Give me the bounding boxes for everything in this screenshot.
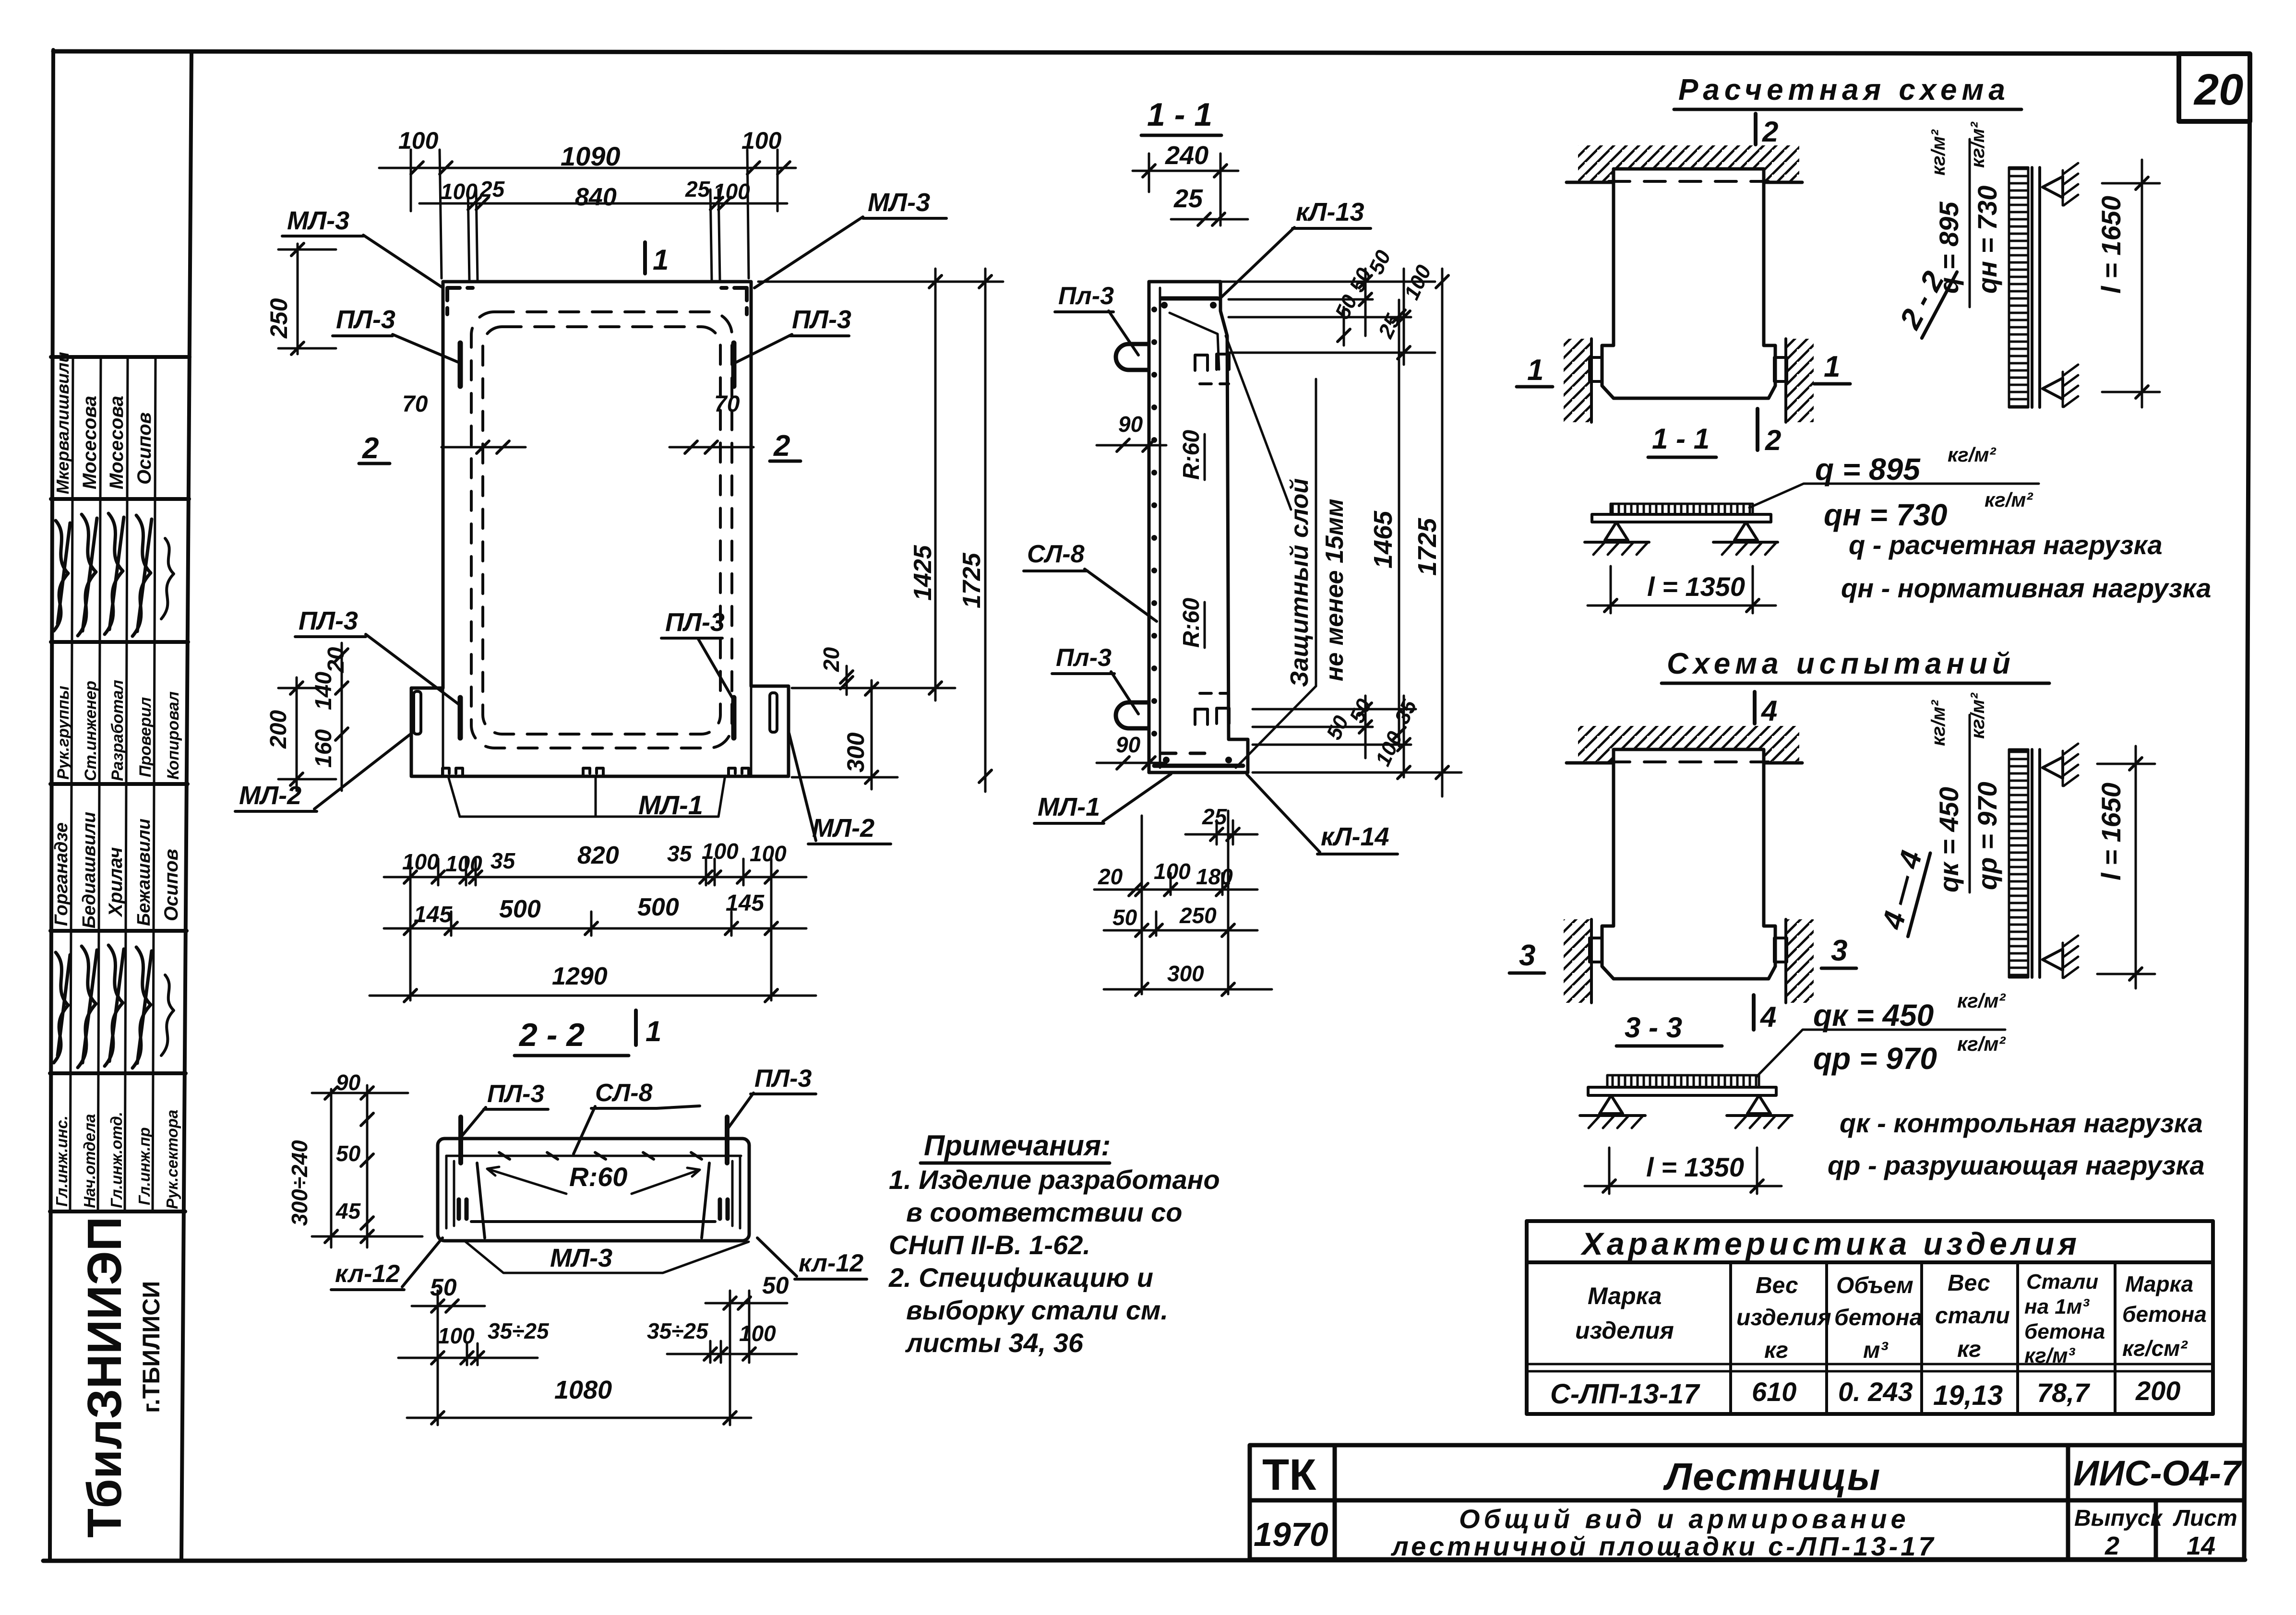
svg-text:300: 300 [1167,961,1204,986]
svg-text:Лестницы: Лестницы [1663,1455,1881,1498]
svg-text:Осипов: Осипов [134,412,155,485]
svg-text:Характеристика изделия: Характеристика изделия [1580,1226,2081,1261]
ПЛ-3 bar left 2-2 [458,1117,463,1163]
svg-text:кл-12: кл-12 [335,1260,400,1288]
lifting hook upper ПЛ-3 [1116,344,1148,370]
label 2-2 rotated [1892,256,1957,338]
svg-text:240: 240 [1165,141,1208,170]
svg-text:qк - контрольная нагрузка: qк - контрольная нагрузка [1840,1108,2203,1138]
svg-text:кг/м²: кг/м² [1928,700,1949,746]
svg-text:qр = 970: qр = 970 [1813,1041,1937,1076]
svg-text:Ст.инженер: Ст.инженер [82,681,100,781]
beam support triangle left test [1600,1095,1623,1114]
svg-text:1 - 1: 1 - 1 [1147,96,1212,133]
svg-text:кл-12: кл-12 [799,1249,863,1277]
svg-text:3: 3 [1519,939,1535,972]
svg-text:2 - 2: 2 - 2 [518,1017,585,1053]
char table col line 5 [2114,1262,2117,1414]
svg-text:140: 140 [311,672,336,710]
svg-text:кг/м²: кг/м² [1957,1033,2006,1055]
stamp signature s1c4 [132,515,152,636]
svg-text:изделия: изделия [1736,1305,1831,1330]
svg-text:кг/м²: кг/м² [1957,989,2006,1012]
svg-text:l = 1650: l = 1650 [2096,783,2126,880]
svg-text:Марка: Марка [1588,1282,1662,1309]
svg-text:листы 34, 36: листы 34, 36 [905,1328,1084,1358]
support bottom 2-2 [2043,378,2063,399]
stamp row line sigs2 top [50,929,187,933]
svg-text:СНиП II-В. 1-62.: СНиП II-В. 1-62. [889,1230,1090,1260]
svg-text:Примечания:: Примечания: [924,1129,1111,1162]
corner angle dash top-right [721,288,747,314]
stamp signature s1c1 [54,521,70,631]
svg-text:200: 200 [2135,1376,2180,1406]
char table double line b [1527,1370,2213,1373]
svg-text:кЛ-14: кЛ-14 [1321,822,1389,851]
support wall right [1784,339,1787,422]
svg-text:100: 100 [445,851,482,876]
ceiling hatch [1578,145,1614,181]
svg-text:100: 100 [1371,728,1408,770]
web bottom line [471,1220,715,1223]
svg-text:840: 840 [575,183,617,211]
svg-text:1725: 1725 [958,552,986,608]
dim 70 right [670,446,753,449]
svg-text:в соответствии со: в соответствии со [906,1197,1182,1227]
svg-text:R:60: R:60 [569,1162,627,1192]
ПЛ-3 bar right 2-2 [725,1117,729,1163]
МЛ-3 leader trapezoid 2-2 [466,1242,749,1273]
svg-text:МЛ-2: МЛ-2 [812,814,874,843]
МЛ-1 leader trapezoid [449,778,725,817]
svg-text:qн = 730: qн = 730 [1824,498,1947,532]
svg-text:кг/м²: кг/м² [1967,692,1988,739]
svg-text:выборку стали см.: выборку стали см. [906,1295,1168,1325]
stamp signature s2c1 [54,952,70,1063]
svg-text:90: 90 [336,1070,361,1095]
stamp signature s2c4 [132,947,152,1068]
support bottom 4-4 [2043,949,2063,970]
svg-text:не менее 15мм: не менее 15мм [1321,499,1349,681]
dim 1725 vertical section [1253,269,1461,796]
corner angle dash top-left [447,288,473,314]
svg-text:кг: кг [1957,1337,1981,1362]
svg-text:35÷25: 35÷25 [647,1318,709,1343]
svg-text:СЛ-8: СЛ-8 [595,1079,653,1107]
svg-text:2: 2 [1765,424,1781,456]
svg-text:qр = 970: qр = 970 [1972,782,2002,890]
svg-text:160: 160 [311,729,336,768]
svg-text:Бедиашвили: Бедиашвили [79,812,99,928]
svg-text:q = 895: q = 895 [1815,452,1921,487]
svg-text:19,13: 19,13 [1933,1380,2003,1411]
svg-text:35÷25: 35÷25 [488,1318,550,1343]
svg-text:1090: 1090 [561,141,621,171]
svg-text:4: 4 [1760,1001,1776,1033]
char table col line 4 [2016,1262,2019,1414]
stamp row line titles1 top [51,640,188,644]
svg-text:qн = 730: qн = 730 [1972,186,2002,294]
dim 1425 right vertical [934,269,937,701]
svg-text:бетона: бетона [2024,1320,2105,1343]
svg-text:145: 145 [726,891,765,916]
ceiling line test [1567,761,1802,765]
svg-text:СЛ-8: СЛ-8 [1027,540,1085,568]
svg-text:R:60: R:60 [1179,598,1204,648]
dim row2 840 line [419,202,787,205]
svg-text:500: 500 [637,893,679,921]
svg-text:стали: стали [1935,1303,2010,1329]
beam support triangle right [1734,522,1758,540]
svg-text:МЛ-3: МЛ-3 [868,188,930,217]
svg-text:1970: 1970 [1254,1516,1328,1553]
ceiling hatch test [1578,726,1614,762]
svg-text:ПЛ-3: ПЛ-3 [336,305,395,334]
svg-text:145: 145 [414,902,453,927]
svg-text:20: 20 [819,647,844,672]
vertical load comb 4-4 [2009,749,2028,977]
vertical beam 2-2 [2031,167,2033,407]
section 1-1 body outline [1149,282,1248,772]
svg-text:250: 250 [265,298,292,339]
svg-text:ПЛ-3: ПЛ-3 [299,606,358,635]
svg-text:Расчетная схема: Расчетная схема [1678,73,2010,107]
svg-text:лестничной площадки с-ЛП-13-17: лестничной площадки с-ЛП-13-17 [1390,1531,1937,1561]
rebar U marks upper [1195,354,1229,370]
МЛ-1 anchor notch right [729,768,749,776]
section taper diagonal [1170,313,1219,369]
svg-text:25: 25 [1202,804,1228,829]
beam bar test [1588,1087,1776,1095]
stamp column line c2 [98,357,101,1211]
svg-text:Осипов: Осипов [161,849,182,921]
svg-text:Вес: Вес [1948,1271,1990,1296]
title block right divider [2066,1445,2070,1559]
svg-text:200: 200 [266,710,291,749]
svg-text:35: 35 [490,848,516,873]
svg-text:Мосесова: Мосесова [106,396,127,489]
svg-text:1425: 1425 [909,545,937,601]
svg-text:q = 895: q = 895 [1934,202,1964,294]
section mark 1 top [643,242,647,273]
stamp row line names1 top [51,355,190,359]
svg-text:Мкервалишвили: Мкервалишвили [53,352,72,495]
svg-text:1080: 1080 [554,1376,612,1404]
support wall left [1590,339,1593,422]
svg-text:500: 500 [499,895,541,923]
svg-text:qк = 450: qк = 450 [1813,998,1934,1033]
svg-text:Марка: Марка [2125,1271,2193,1296]
dim 20-140-160 left vertical [341,643,343,791]
title block Выпуск-Лист divider [2154,1500,2158,1559]
svg-text:Гл.инж.отд.: Гл.инж.отд. [108,1112,125,1208]
svg-text:Горганадзе: Горганадзе [51,822,72,926]
svg-text:qн - нормативная нагрузка: qн - нормативная нагрузка [1841,573,2211,603]
МЛ-1 trapezoid divider [595,777,597,817]
svg-text:1725: 1725 [1413,518,1442,576]
rib rebar dots left [459,1199,466,1219]
slab bearing tab right test [1774,938,1787,962]
plan left ear tab МЛ-2 [414,691,421,734]
slab hidden top dashed test [1609,760,1769,763]
svg-text:бетона: бетона [2122,1302,2207,1327]
dim rowB 500 line [384,927,806,930]
rebar dots along section [1151,307,1157,736]
svg-text:90: 90 [1118,412,1143,437]
stamp column line c3 [125,357,128,1211]
svg-text:20: 20 [1098,864,1123,889]
dim 20 right vertical [846,666,848,695]
ground line left [1585,541,1649,544]
ПЛ-3 bar bottom-right [731,698,737,738]
dim 1465 vertical [1393,300,1405,746]
load leader line test [1757,1030,2005,1077]
svg-text:qр - разрушающая нагрузка: qр - разрушающая нагрузка [1828,1150,2205,1180]
support top 2-2 [2043,177,2063,198]
svg-text:50: 50 [762,1272,789,1299]
svg-text:100: 100 [438,1323,475,1348]
svg-text:250: 250 [1179,903,1217,928]
svg-text:35: 35 [667,841,693,866]
svg-text:70: 70 [714,392,740,417]
left stamp column divider [181,52,191,1560]
rib inner line left [446,1156,454,1228]
svg-text:2: 2 [1762,116,1778,148]
stamp signature s2c2 [78,946,97,1068]
dim rowA 820 line [384,876,806,879]
svg-text:Рук.группы: Рук.группы [54,686,72,780]
svg-text:Рук.сектора: Рук.сектора [163,1110,181,1209]
svg-text:100: 100 [702,839,739,864]
svg-text:МЛ-3: МЛ-3 [287,206,349,235]
svg-text:Мосесова: Мосесова [79,396,100,489]
ladder 20 100 180 [1094,889,1257,891]
section inner face line [1159,288,1161,768]
svg-text:300÷240: 300÷240 [287,1140,312,1226]
title block row divider [1250,1498,2244,1503]
svg-text:1290: 1290 [552,962,608,990]
support top 4-4 [2043,757,2063,778]
beam support triangle right test [1747,1095,1770,1114]
svg-text:qк = 450: qк = 450 [1934,787,1964,892]
sheet frame left border [50,50,53,1561]
svg-text:кг/м²: кг/м² [1948,443,1996,466]
svg-text:Хрилач: Хрилач [105,847,126,917]
svg-text:2. Спецификацию и: 2. Спецификацию и [888,1262,1153,1293]
svg-text:14: 14 [2187,1532,2215,1560]
ПЛ-3 bar top-left [458,343,463,386]
svg-text:МЛ-1: МЛ-1 [1038,793,1100,821]
svg-text:на 1м³: на 1м³ [2024,1295,2090,1318]
stamp signature s2c5 [161,975,174,1056]
slab hidden top dashed [1609,180,1769,183]
svg-text:100: 100 [402,849,439,874]
stamp row line sigs1 top [51,497,189,501]
protective layer leader upper [1226,336,1291,510]
svg-text:100: 100 [713,179,750,204]
МЛ-1 bottom bar [1154,764,1243,768]
svg-text:25: 25 [1173,184,1203,213]
svg-text:3: 3 [1831,934,1847,967]
lifting hook lower ПЛ-3 [1116,702,1148,728]
section cut 2 top [1754,114,1758,144]
dashes near U marks [1200,384,1229,693]
svg-text:45: 45 [335,1199,361,1223]
ground line right [1713,541,1778,544]
svg-text:1: 1 [1824,350,1840,383]
svg-text:0. 243: 0. 243 [1838,1377,1913,1407]
svg-text:Гл.инж.инс.: Гл.инж.инс. [53,1116,71,1207]
svg-text:50: 50 [1112,905,1137,930]
svg-text:Пл-3: Пл-3 [1056,644,1112,672]
svg-text:Схема испытаний: Схема испытаний [1667,647,2015,680]
slab front view test [1602,749,1775,979]
support wall right test [1784,919,1787,1003]
svg-text:100: 100 [441,179,478,204]
svg-text:2: 2 [773,429,790,463]
КЛ-13 top bar [1161,297,1218,301]
svg-text:2: 2 [2105,1532,2119,1560]
svg-text:1: 1 [1527,354,1543,387]
svg-text:300: 300 [842,732,869,772]
label 4-4 rotated [1875,844,1930,937]
ladder 300 [1104,988,1272,991]
svg-text:100: 100 [739,1321,776,1346]
ceiling line [1567,181,1802,184]
ПЛ-3 bar top-right [731,343,737,386]
svg-text:кг/см²: кг/см² [2122,1336,2188,1361]
sheet frame right border [2244,54,2250,1560]
top slab second line [446,1155,741,1157]
plan right ear tab МЛ-2 [770,693,777,732]
svg-text:кЛ-13: кЛ-13 [1296,198,1364,226]
МЛ-1 anchor notch left [442,768,463,776]
dim rowC 1290 line [370,995,816,997]
dim 25 top [1171,218,1248,221]
load leader line [1749,484,2039,508]
rebar U marks lower [1195,708,1229,724]
beam support triangle left [1605,522,1628,540]
svg-text:Бежашвили: Бежашвили [134,819,154,926]
svg-text:25: 25 [685,177,711,202]
rib taper right [702,1163,709,1238]
char table col line 2 [1825,1262,1828,1414]
svg-text:35: 35 [1390,696,1422,728]
svg-text:90: 90 [1116,732,1141,757]
svg-text:100: 100 [741,127,782,154]
stamp column line c1 [70,357,73,1211]
svg-text:78,7: 78,7 [2037,1377,2091,1408]
svg-text:1465: 1465 [1369,511,1398,569]
rib inner line right [732,1156,740,1228]
dim 300 right vertical [871,680,873,789]
svg-text:Выпуск: Выпуск [2074,1506,2163,1531]
ladder 50 250 [1104,929,1257,932]
stamp signature s2c3 [105,945,124,1066]
dim 70 left [442,446,526,449]
beam load comb test [1607,1075,1759,1087]
svg-text:20: 20 [323,647,349,673]
svg-text:R:60: R:60 [1179,430,1204,480]
vertical load comb 2-2 [2009,167,2028,407]
section 2-2 outline [438,1139,749,1241]
svg-text:Проверил: Проверил [136,697,155,777]
vertical beam 4-4 [2031,749,2033,977]
svg-text:20: 20 [2193,65,2243,114]
svg-text:25: 25 [479,177,505,202]
svg-text:70: 70 [402,392,428,417]
svg-text:1 - 1: 1 - 1 [1652,423,1710,455]
svg-text:ПЛ-3: ПЛ-3 [487,1080,544,1108]
svg-text:l = 1650: l = 1650 [2096,196,2126,294]
dim 200 left vertical [296,677,298,791]
svg-text:Разработал: Разработал [108,680,127,781]
svg-text:4: 4 [1761,695,1777,727]
svg-text:С-ЛП-13-17: С-ЛП-13-17 [1550,1378,1700,1410]
char table col line 3 [1920,1262,1923,1414]
stamp row line logo top [50,1210,185,1213]
ladder extension lines [409,859,412,1000]
svg-text:Пл-3: Пл-3 [1058,282,1114,310]
ladder extensions [1141,816,1143,994]
stamp column line c4 [153,357,155,1211]
svg-text:кг: кг [1764,1338,1788,1363]
plan slab outline [411,282,789,776]
beam bar [1592,514,1771,522]
slab rebar ticks [499,1152,702,1159]
section 1-1 bottom-right dim cluster [1253,696,1416,779]
svg-text:ПЛ-3: ПЛ-3 [754,1065,812,1092]
svg-text:ПЛ-3: ПЛ-3 [665,608,725,637]
char table header divider [1527,1260,2213,1264]
slab bearing tab left test [1590,938,1602,962]
svg-text:м³: м³ [1863,1338,1889,1363]
svg-text:Нач.отдела: Нач.отдела [81,1114,98,1208]
svg-text:l = 1350: l = 1350 [1647,571,1745,602]
char table col line 1 [1729,1262,1732,1414]
svg-text:1. Изделие разработано: 1. Изделие разработано [889,1164,1220,1195]
svg-text:кг/м²: кг/м² [1967,121,1988,168]
svg-text:1: 1 [646,1015,661,1047]
svg-text:100: 100 [398,127,439,154]
svg-text:l = 1350: l = 1350 [1646,1152,1744,1182]
ground line right test [1727,1114,1792,1117]
dim 1725 right vertical [984,269,987,792]
svg-text:100: 100 [1154,859,1191,884]
МЛ-1 anchor notch mid [583,768,603,776]
svg-text:2: 2 [362,432,379,465]
slab front view [1602,169,1775,398]
rib taper left [477,1163,485,1238]
ПЛ-3 bar bottom-left [458,698,463,738]
section cut 4 top [1753,692,1757,724]
char table double line a [1527,1363,2213,1366]
svg-text:МЛ-1: МЛ-1 [638,790,703,820]
svg-text:ПЛ-3: ПЛ-3 [792,305,851,334]
svg-text:Лист: Лист [2173,1506,2237,1531]
svg-text:изделия: изделия [1575,1317,1674,1344]
sheet frame top border [53,51,2250,54]
svg-text:ТбилЗНИИЭП: ТбилЗНИИЭП [78,1217,132,1538]
svg-text:ТК: ТК [1262,1450,1316,1499]
stamp signature s1c2 [78,514,97,636]
dim 90 lower [1097,762,1166,764]
svg-text:50: 50 [336,1141,361,1166]
sheet number box [2179,54,2250,121]
svg-text:бетона: бетона [1834,1305,1922,1330]
svg-text:кг/м²: кг/м² [1985,488,2033,511]
char table outer box [1527,1221,2213,1414]
